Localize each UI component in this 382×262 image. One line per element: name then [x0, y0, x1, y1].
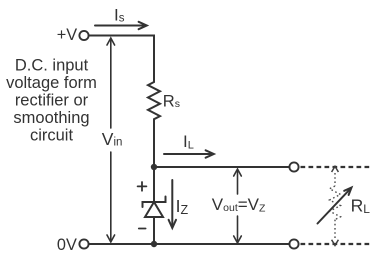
wire middle rail [154, 166, 289, 168]
label minus sign [139, 228, 146, 230]
wire resistor bottom to junction [153, 119, 155, 167]
svg-text:voltage form: voltage form [6, 74, 97, 92]
wire zener to bottom rail [153, 217, 155, 244]
svg-text:+V: +V [57, 26, 78, 44]
svg-text:D.C. input: D.C. input [15, 56, 89, 74]
svg-text:IZ: IZ [176, 196, 189, 217]
node junction middle [151, 164, 157, 170]
svg-text:Is: Is [114, 6, 125, 25]
svg-text:Vin: Vin [102, 129, 123, 149]
svg-text:circuit: circuit [30, 127, 74, 145]
wire bottom rail [89, 243, 290, 245]
svg-text:IL: IL [183, 132, 194, 152]
wire dashed bottom load rail [301, 243, 371, 245]
diode zener D1 triangle [145, 202, 163, 217]
wire junction to zener [153, 167, 155, 202]
node junction bottom [151, 241, 157, 247]
svg-text:smoothing: smoothing [13, 109, 89, 127]
svg-text:0V: 0V [57, 236, 77, 254]
arrow IL current [164, 150, 214, 157]
node output top terminal circle [289, 162, 298, 171]
svg-text:Vout=VZ: Vout=VZ [212, 195, 266, 215]
node +V terminal circle [79, 31, 88, 40]
diode zener D1 cathode bar [143, 197, 166, 208]
svg-text:RL: RL [351, 195, 371, 216]
arrow RL variable [318, 188, 352, 224]
arrow Vout dimension [234, 169, 242, 243]
wire dashed top load rail [301, 166, 371, 168]
resistor Rs [148, 82, 160, 119]
svg-text:rectifier or: rectifier or [15, 92, 89, 110]
arrow IZ current [169, 180, 176, 228]
arrow Is current [95, 22, 147, 29]
resistor RL variable load (dotted) [330, 166, 341, 245]
wire top rail from +V to corner [89, 36, 154, 83]
arrow Vin dimension [107, 38, 115, 242]
label plus sign [138, 182, 147, 191]
node 0V terminal circle [79, 239, 88, 248]
node output bottom terminal circle [289, 239, 298, 248]
svg-text:Rs: Rs [163, 92, 180, 110]
